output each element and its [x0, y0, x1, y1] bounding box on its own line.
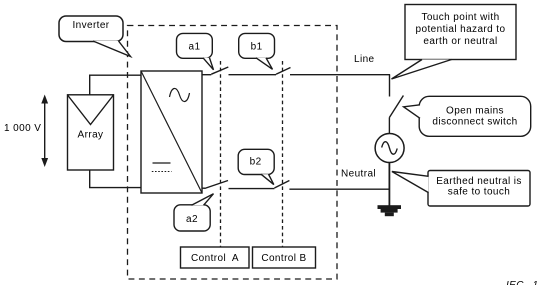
wire inverter to switch a2 [202, 187, 205, 189]
svg-text:Control B: Control B [261, 253, 306, 264]
control unit B box [253, 247, 316, 268]
wire array bottom to inverter [90, 170, 141, 188]
label 1 000 V [4, 123, 41, 134]
svg-text:a1: a1 [189, 41, 201, 52]
svg-text:potential hazard to: potential hazard to [416, 24, 506, 35]
svg-text:Array: Array [78, 130, 104, 141]
callout: Touch point with potential hazard to earth or neutral [392, 5, 517, 80]
wire array top to inverter [90, 75, 141, 95]
wire b1 to line touch point [290, 74, 390, 76]
svg-text:a2: a2 [186, 214, 198, 225]
earth ground symbol [378, 205, 402, 216]
callout Inverter [59, 16, 131, 57]
wire AC source to earth [388, 162, 390, 205]
callout a1 [177, 33, 214, 69]
wire b2 to neutral node [289, 188, 390, 190]
callout b2 [238, 149, 274, 184]
svg-text:IEC: IEC [506, 280, 524, 285]
wire line corner down to disconnect switch [389, 75, 391, 97]
inverter U1 [141, 71, 202, 193]
control unit A box [181, 247, 250, 268]
label Line [354, 54, 375, 65]
switch b2 (blade) [274, 181, 289, 189]
svg-text:b1: b1 [251, 41, 263, 52]
callout: Earthed neutral is safe to touch [392, 171, 530, 207]
wire a2 to b2 [229, 188, 275, 190]
svg-text:Inverter: Inverter [72, 20, 109, 31]
wire inverter to switch a1 [202, 74, 211, 76]
label Neutral [341, 169, 376, 180]
wire a1 to b1 [229, 74, 277, 76]
svg-text:Control A: Control A [191, 253, 239, 264]
array voltage arrow (1000 V) [41, 95, 48, 168]
callout: Open mains disconnect switch [404, 96, 531, 136]
svg-text:1 000 V: 1 000 V [4, 123, 41, 134]
svg-text:Touch point with: Touch point with [421, 12, 499, 23]
figure number IEC (cut off at bottom edge) [506, 280, 538, 285]
disconnect switch blade (open) [389, 96, 403, 118]
wire disconnect switch to AC source [388, 118, 390, 134]
svg-text:earth or neutral: earth or neutral [423, 36, 497, 47]
svg-text:safe to touch: safe to touch [448, 187, 510, 198]
switch a1 (blade) [211, 67, 228, 74]
PV array [68, 95, 114, 170]
switch a2 (blade) [205, 181, 229, 189]
svg-text:1: 1 [533, 280, 539, 285]
control line B (dashed) [282, 61, 284, 247]
svg-text:Earthed neutral is: Earthed neutral is [436, 176, 522, 187]
callout a2 [174, 194, 214, 231]
svg-text:b2: b2 [250, 156, 262, 167]
svg-text:Neutral: Neutral [341, 169, 376, 180]
AC source (mains) [375, 134, 404, 163]
svg-text:Line: Line [354, 54, 375, 65]
switch b1 (blade) [276, 68, 291, 75]
callout b1 [239, 33, 275, 69]
inverter enclosure boundary (dashed) [128, 26, 338, 280]
control line A (dashed) [220, 61, 222, 247]
svg-text:Open mains: Open mains [446, 106, 504, 117]
svg-text:disconnect switch: disconnect switch [432, 117, 517, 128]
